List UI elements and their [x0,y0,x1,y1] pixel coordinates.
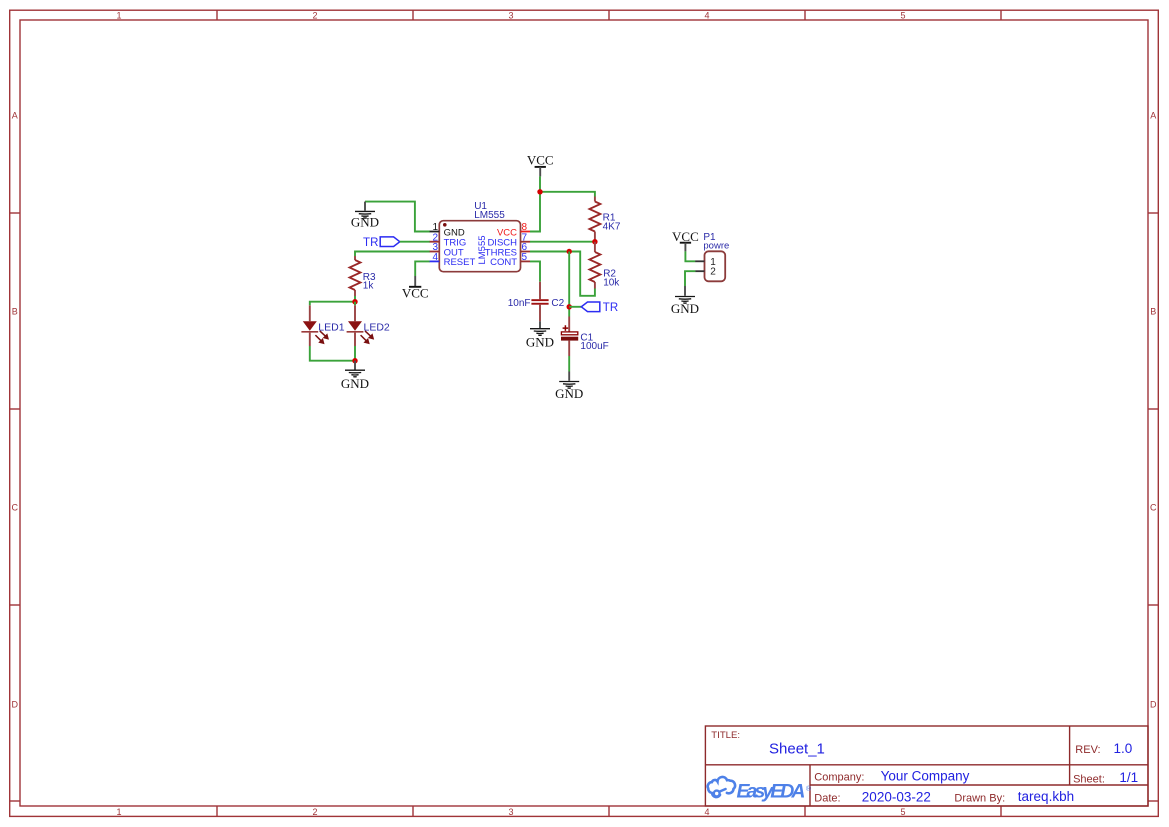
svg-text:2: 2 [312,11,317,21]
wire C1 to GND [568,356,570,372]
svg-text:1.0: 1.0 [1114,741,1133,756]
wire U1 pin4 to VCC [415,261,430,276]
svg-text:EasyEDA: EasyEDA [737,781,806,803]
EasyEDA logo [708,777,812,803]
wire R3 to LED junction [354,296,356,302]
svg-text:3: 3 [508,11,513,21]
diode LED2 [347,305,390,346]
ground GND (LEDs) [341,361,369,391]
svg-text:A: A [1150,111,1156,121]
wire VCC junction to R1 [540,192,595,197]
svg-text:Date:: Date: [814,792,840,804]
ground GND (C2) [526,321,554,349]
U1 pin 1 GND [430,222,465,238]
svg-text:1: 1 [116,807,121,817]
wire VCC down to pin8 [530,176,540,231]
svg-text:C2: C2 [551,298,564,309]
title block text [711,730,1138,804]
svg-text:RESET: RESET [444,257,476,268]
svg-text:10k: 10k [603,277,620,288]
title block grid [705,726,1148,806]
svg-text:powre: powre [703,241,729,252]
resistor R1 [589,197,620,242]
wire VCC to P1 pin1 [685,251,695,261]
svg-text:B: B [12,307,18,317]
svg-text:Company:: Company: [814,771,864,783]
svg-text:C: C [12,503,19,513]
wire P1 pin2 to GND [685,271,695,286]
junction LEDs/GND [352,358,357,363]
svg-text:GND: GND [526,334,554,349]
wire LED bottom rail [310,346,355,361]
svg-text:5: 5 [522,252,528,263]
svg-text:Sheet_1: Sheet_1 [769,741,825,758]
svg-text:5: 5 [900,807,905,817]
junction pin6/THRES [567,249,572,254]
svg-text:VCC: VCC [527,152,554,167]
wire TR to pin2 [400,241,430,243]
svg-text:1: 1 [116,11,121,21]
svg-text:4: 4 [432,252,438,263]
svg-text:1/1: 1/1 [1119,770,1138,785]
svg-text:tareq.kbh: tareq.kbh [1018,789,1074,804]
svg-text:4K7: 4K7 [603,221,621,232]
svg-text:Drawn By:: Drawn By: [954,792,1005,804]
net flag TR (right) [581,302,618,314]
svg-text:LED2: LED2 [364,321,390,333]
svg-text:10nF: 10nF [508,298,531,309]
svg-text:®: ® [806,785,812,793]
svg-text:LED1: LED1 [318,321,344,333]
resistor R2 [589,242,620,289]
wire U1 pin3 to R3 [355,252,430,257]
svg-text:GND: GND [671,301,699,316]
svg-text:3: 3 [508,807,513,817]
svg-text:D: D [1150,700,1157,710]
power VCC (top) [527,152,554,176]
svg-text:CONT: CONT [490,257,517,268]
svg-text:VCC: VCC [402,286,429,301]
svg-text:1k: 1k [363,281,375,292]
U1 pin 4 RESET [430,252,476,268]
ground GND (top-left) [351,202,379,230]
capacitor C2 [508,282,565,321]
U1 pin 7 DISCH [487,232,530,248]
U1 pin 5 CONT [490,252,530,268]
svg-text:TITLE:: TITLE: [711,730,740,741]
wire U1 pin6 to R2 bottom [530,252,595,296]
svg-text:VCC: VCC [672,229,699,244]
junction TR/C1 [567,304,572,309]
U1 pin 6 THRES [485,242,530,258]
junction R3/LEDs [352,299,357,304]
svg-text:Your Company: Your Company [881,769,970,784]
net flag TR (to U1 pin2) [363,237,400,249]
svg-text:4: 4 [704,807,709,817]
svg-text:2: 2 [710,267,716,278]
ground GND (P1) [671,286,699,316]
wire junction to TR flag [569,306,581,308]
power VCC (below pin4) [402,276,429,301]
svg-text:4: 4 [704,11,709,21]
svg-text:A: A [12,111,18,121]
svg-text:GND: GND [341,376,369,391]
svg-text:D: D [12,700,19,710]
U1 pin 3 OUT [430,242,464,258]
wire junction down to LED2 [354,302,356,306]
U1 pin 8 VCC [497,222,530,238]
svg-text:5: 5 [900,11,905,21]
diode LED1 [301,305,344,346]
svg-text:GND: GND [555,386,583,401]
svg-text:REV:: REV: [1075,744,1100,756]
wire U1 pin5 to C2 [530,261,540,281]
ground GND (C1) [555,372,583,402]
svg-text:B: B [1150,307,1156,317]
svg-text:100uF: 100uF [580,341,608,352]
svg-text:TR: TR [363,237,378,249]
junction VCC/R1 [537,189,542,194]
power VCC (P1) [672,229,699,252]
U1 pin 2 TRIG [430,232,467,248]
wire GND-net to U1 pin1 [365,202,430,232]
svg-text:2: 2 [312,807,317,817]
connector P1 [695,232,729,281]
capacitor C1 [561,317,609,357]
wire LED top rail [310,302,355,306]
junction R1/R2/pin7 [592,239,597,244]
svg-text:C: C [1150,503,1157,513]
op U1 LM555 body [439,201,520,272]
svg-text:Sheet:: Sheet: [1073,773,1105,785]
wire THRES junction down to C1 [568,252,570,317]
wire U1 pin7 to R1/R2 junction [530,241,595,243]
svg-text:LM555: LM555 [474,210,505,221]
svg-text:GND: GND [351,215,379,230]
resistor R3 [350,256,377,296]
svg-text:TR: TR [603,302,618,314]
svg-text:2020-03-22: 2020-03-22 [862,789,931,804]
